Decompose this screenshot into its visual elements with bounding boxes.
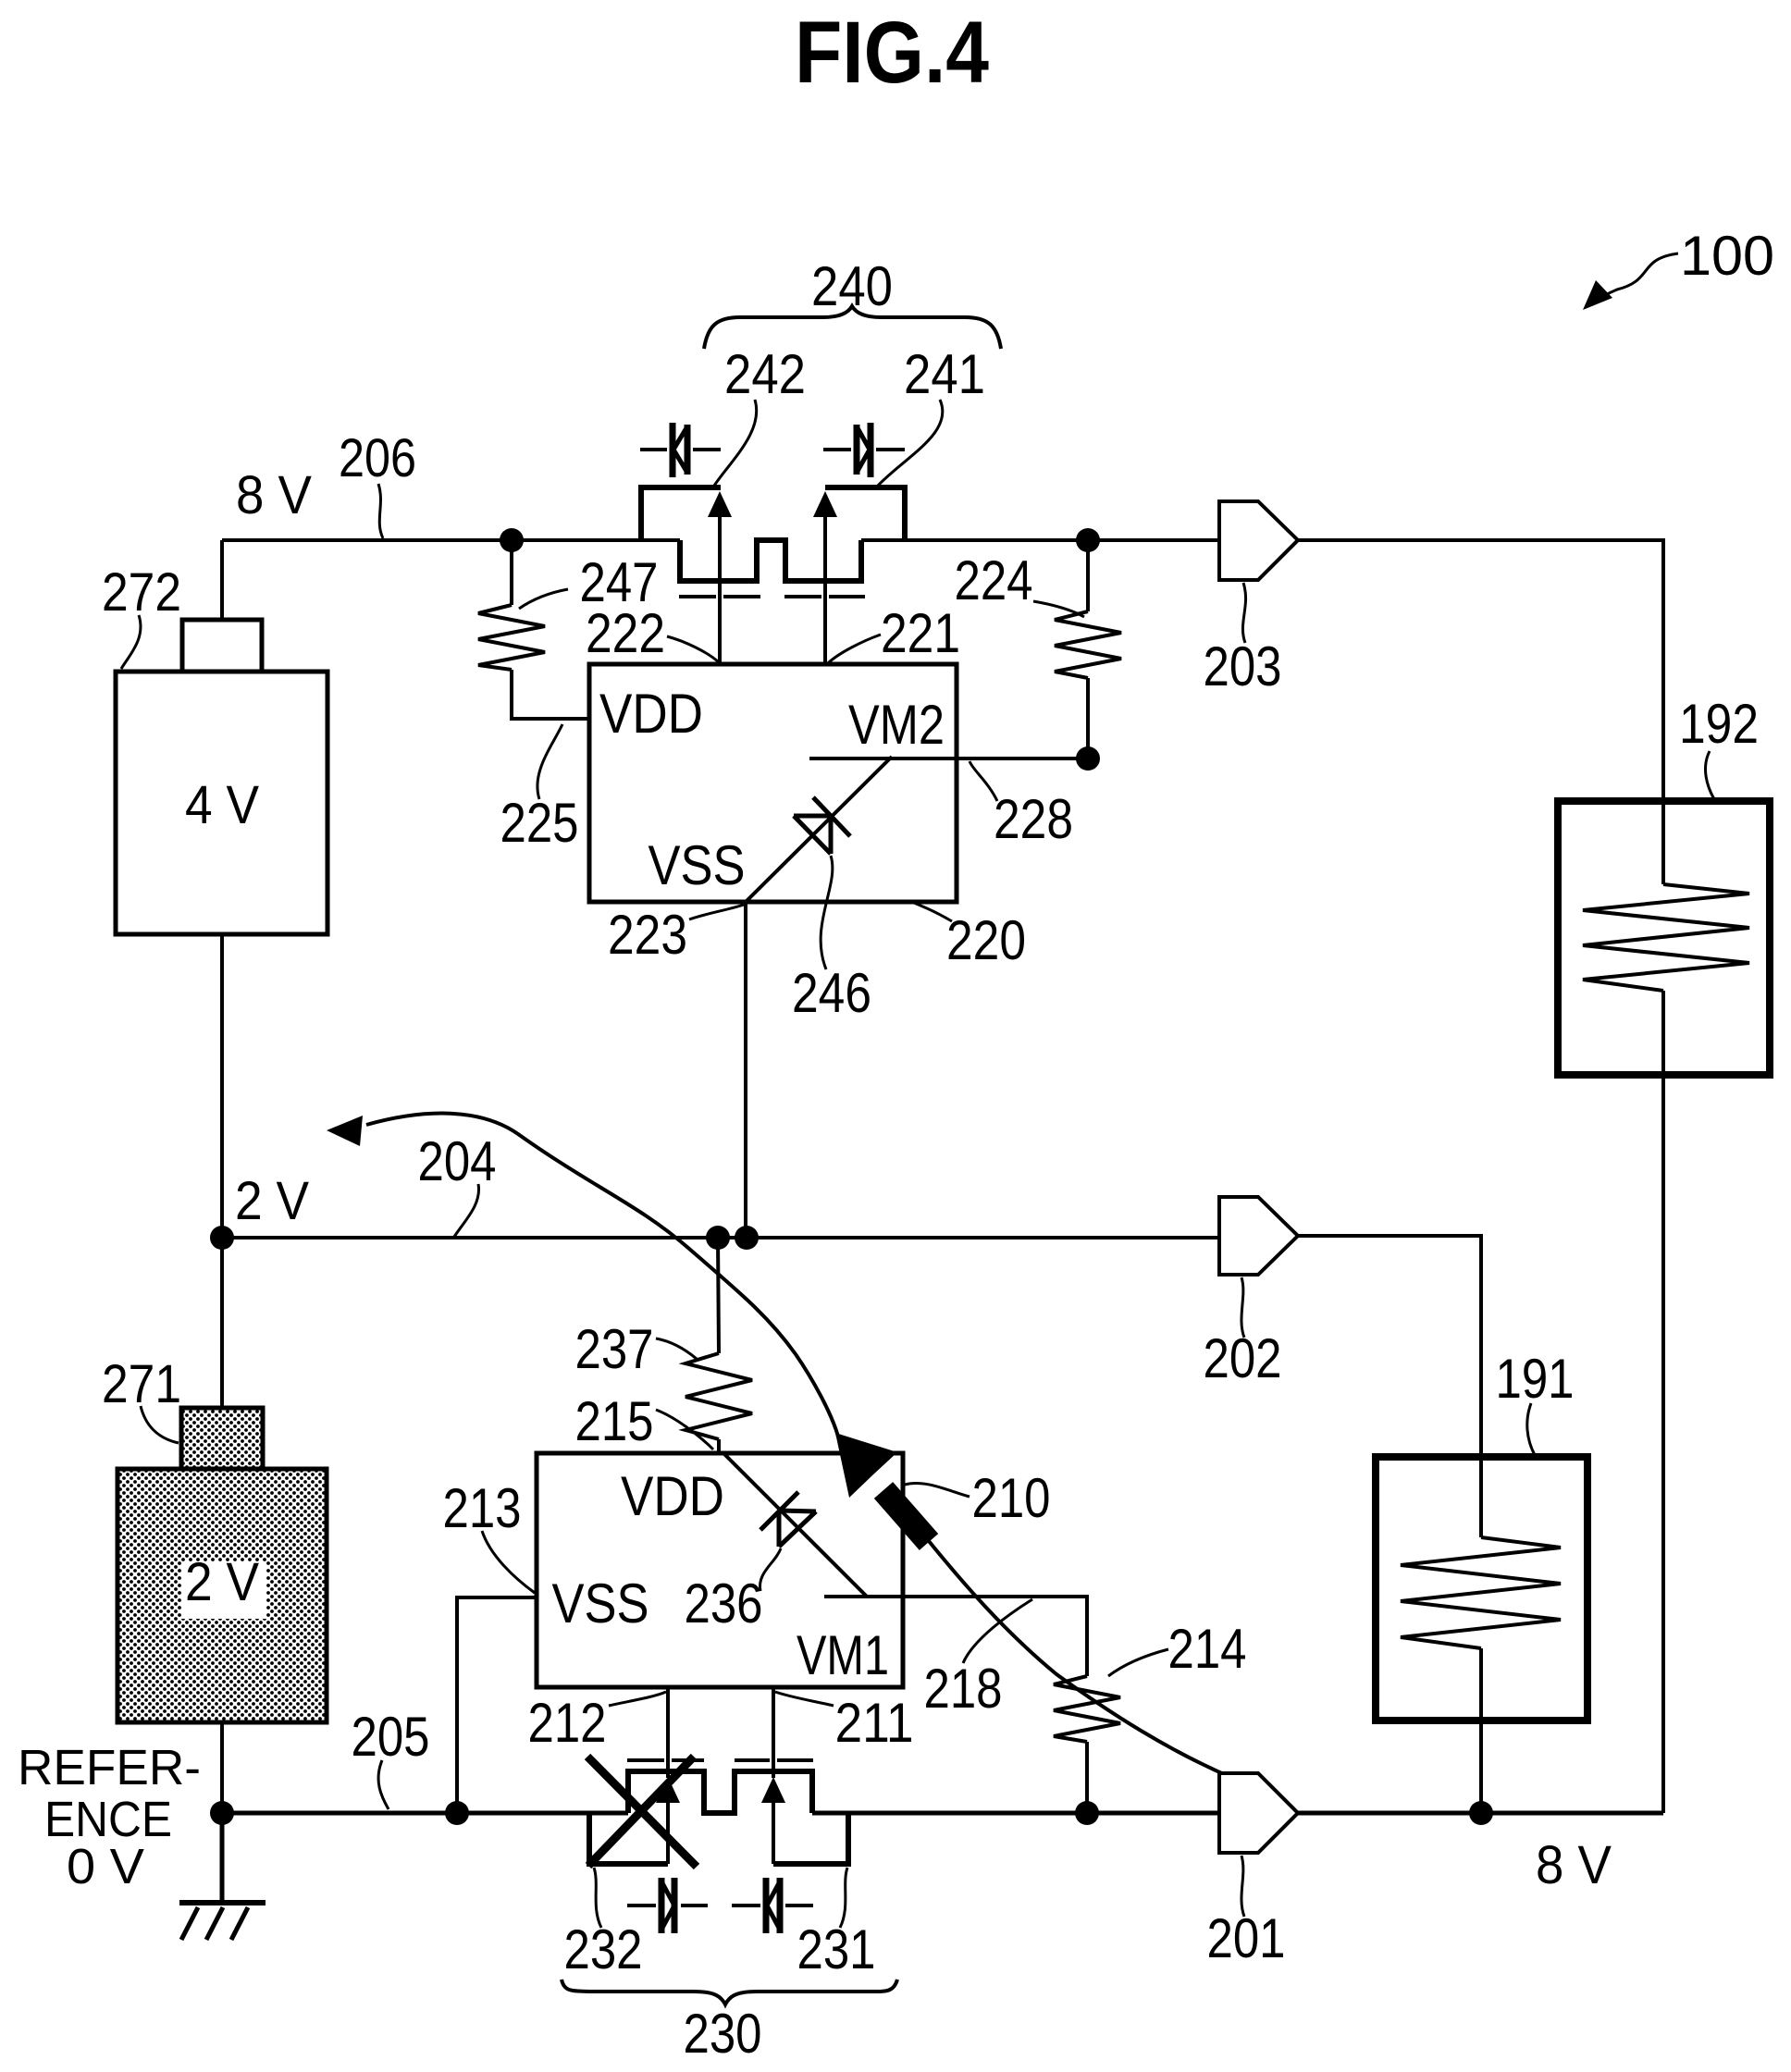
leader 242 [714, 400, 757, 486]
leader 247 [519, 589, 568, 609]
svg-text:204: 204 [418, 1130, 497, 1192]
svg-text:211: 211 [835, 1692, 914, 1754]
resistor 191 box [1376, 1457, 1587, 1720]
brace 240 [704, 306, 1001, 349]
leader 205 [378, 1760, 389, 1809]
transistor channel 230 pair [628, 1771, 812, 1813]
wire battery 271 to 0V rail [220, 1722, 224, 1813]
wire 202 output [1298, 1236, 1481, 1457]
svg-text:192: 192 [1679, 693, 1759, 755]
transistor 242 [641, 487, 732, 665]
node junction dot 8V/247 [500, 528, 524, 552]
node dot 2V/237 [706, 1226, 730, 1250]
leader 191 [1527, 1403, 1535, 1455]
svg-text:224: 224 [955, 549, 1033, 611]
leader 271 [141, 1406, 179, 1443]
svg-text:4 V: 4 V [185, 775, 259, 835]
battery 272 terminal [182, 620, 262, 672]
wire 191 to bottom rail [1479, 1720, 1483, 1813]
svg-text:100: 100 [1680, 225, 1774, 287]
wire 2V rail [222, 1236, 1219, 1239]
svg-text:271: 271 [102, 1354, 181, 1414]
gate 231 [735, 1758, 813, 1762]
svg-text:206: 206 [339, 428, 416, 488]
svg-text:2 V: 2 V [235, 1171, 309, 1231]
leader 225 [537, 724, 562, 799]
svg-text:231: 231 [797, 1918, 876, 1980]
buffer 202 [1219, 1197, 1298, 1275]
diode 236 [760, 1492, 816, 1547]
gate 242 [679, 595, 760, 598]
svg-text:213: 213 [443, 1477, 522, 1539]
svg-text:210: 210 [972, 1467, 1051, 1529]
leader 241 [877, 400, 943, 487]
leader 232 [594, 1868, 601, 1928]
svg-text:202: 202 [1204, 1327, 1282, 1389]
resistor 191 element [1401, 1457, 1561, 1720]
resistor 247 [478, 540, 589, 719]
svg-text:228: 228 [994, 788, 1073, 850]
leader 246 [821, 856, 833, 969]
svg-text:223: 223 [608, 904, 687, 966]
leader 206 [378, 484, 383, 538]
diode of 242 [640, 423, 721, 477]
diode 246 diagonal [746, 757, 892, 902]
wire battery272 to 2V node [220, 934, 224, 1238]
svg-text:236: 236 [685, 1572, 763, 1634]
wire VM2 line [809, 757, 1088, 760]
leader 220 [914, 903, 952, 921]
svg-text:VDD: VDD [599, 683, 703, 745]
resistor 237 [686, 1238, 752, 1453]
diode 236 diagonal [723, 1453, 867, 1597]
resistor 192 element [1583, 801, 1749, 1075]
node dot 0V/214 [1075, 1801, 1099, 1825]
battery 271 terminal [181, 1408, 263, 1469]
svg-text:246: 246 [792, 962, 871, 1024]
diode of 232 [627, 1878, 708, 1933]
X mark over 232 [587, 1757, 697, 1867]
node dot 0V/213 [445, 1801, 469, 1825]
svg-text:VSS: VSS [648, 834, 746, 896]
svg-text:225: 225 [500, 792, 579, 854]
svg-text:214: 214 [1168, 1618, 1247, 1680]
svg-text:230: 230 [684, 2003, 762, 2065]
gate 232 [627, 1758, 704, 1762]
diode of 231 [732, 1878, 813, 1933]
leader 100 [1591, 253, 1678, 305]
node dot 2V left [210, 1226, 234, 1250]
leader 202 [1241, 1277, 1244, 1338]
svg-text:2 V: 2 V [185, 1552, 259, 1612]
svg-text:218: 218 [924, 1658, 1003, 1720]
svg-text:REFER-: REFER- [18, 1740, 201, 1795]
leader 218 [963, 1599, 1032, 1663]
leader 272 [121, 615, 141, 669]
node junction dot VM2/224 [1076, 746, 1100, 771]
arrowhead 204 [327, 1116, 363, 1146]
leader 228 [970, 761, 997, 801]
leader 203 [1242, 583, 1245, 643]
IC 220 box [589, 664, 957, 902]
battery 272 body 4V [116, 672, 327, 934]
leader 204 [454, 1184, 479, 1237]
wire VM1 218 [824, 1597, 1087, 1676]
svg-text:212: 212 [528, 1692, 607, 1754]
wire 192 to bottom rail [1661, 1075, 1665, 1813]
leader 201 [1241, 1856, 1244, 1917]
buffer 203 [1219, 501, 1298, 580]
wire VSS 223 to 2V rail [744, 902, 747, 1238]
leader 215 [656, 1410, 713, 1449]
resistor 192 box [1558, 801, 1770, 1075]
node dot 0V left [210, 1801, 234, 1825]
leader 223 [689, 905, 744, 919]
curve 204 annotation [366, 1114, 838, 1437]
svg-text:241: 241 [904, 343, 985, 405]
svg-text:205: 205 [352, 1706, 430, 1768]
svg-text:221: 221 [881, 602, 960, 664]
leader 236 [760, 1548, 781, 1591]
svg-text:203: 203 [1204, 635, 1282, 697]
leader 231 [840, 1868, 847, 1928]
diode of 241 [823, 423, 905, 477]
brace 230 [562, 1979, 897, 2004]
buffer 201 [1219, 1773, 1298, 1853]
svg-text:272: 272 [102, 562, 181, 623]
wire 8V top rail [222, 538, 680, 542]
leader 192 [1706, 751, 1714, 799]
node junction dot 8V/224 [1076, 528, 1100, 552]
node dot 2V/223 [735, 1226, 759, 1250]
transistor 241 [813, 487, 905, 665]
wire VSS 213 [457, 1597, 537, 1813]
diode 246 [794, 797, 850, 854]
gate 241 [784, 595, 865, 598]
svg-text:247: 247 [580, 551, 659, 613]
leader 212 [609, 1692, 666, 1706]
svg-text:0 V: 0 V [67, 1839, 144, 1894]
leader 222 [667, 636, 719, 662]
svg-text:VDD: VDD [621, 1465, 724, 1527]
node dot 0V/191 [1469, 1801, 1493, 1825]
leader 210 [905, 1483, 970, 1497]
battery 271 body 2V [117, 1469, 327, 1722]
leader 237 [656, 1338, 697, 1359]
wire battery272 to 8V rail [220, 540, 224, 620]
transistor 232 [589, 1687, 680, 1864]
IC 210 box [537, 1453, 903, 1687]
leader 224 [1033, 601, 1084, 617]
leader 213 [482, 1531, 535, 1593]
svg-text:215: 215 [575, 1390, 654, 1452]
leader 214 [1108, 1649, 1168, 1676]
svg-text:237: 237 [575, 1318, 654, 1380]
svg-text:220: 220 [946, 909, 1026, 971]
svg-text:VM1: VM1 [797, 1624, 889, 1686]
resistor 214 [1054, 1676, 1120, 1813]
svg-text:FIG.4: FIG.4 [795, 4, 989, 102]
svg-text:242: 242 [724, 343, 806, 405]
wire 201 output / bottom 8V rail right [1298, 1811, 1663, 1816]
svg-text:8 V: 8 V [1536, 1835, 1612, 1895]
svg-text:VM2: VM2 [848, 694, 945, 756]
wire 2V node to battery 271 [220, 1238, 224, 1408]
svg-text:191: 191 [1496, 1348, 1575, 1410]
thick arrow 210 direction [835, 1433, 929, 1542]
svg-text:8 V: 8 V [236, 465, 312, 525]
wire bottom 0V rail left part [222, 1811, 628, 1816]
svg-text:232: 232 [564, 1918, 643, 1980]
svg-text:VSS: VSS [552, 1572, 649, 1634]
transistor 231 [761, 1687, 848, 1864]
ground [179, 1813, 266, 1940]
svg-text:201: 201 [1207, 1907, 1286, 1969]
leader 221 [826, 635, 881, 665]
leader 211 [775, 1692, 834, 1706]
resistor 224 [1055, 540, 1121, 758]
transistor channel 240 pair [680, 540, 861, 581]
